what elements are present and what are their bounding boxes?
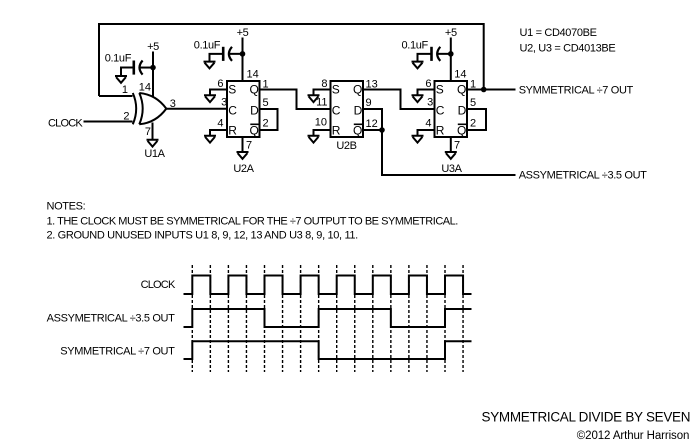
svg-text:Q: Q [457,124,466,138]
wire U2A R stub + ground [210,130,227,136]
svg-text:9: 9 [366,97,372,109]
capacitor C2 0.1uF [229,53,243,55]
wire U3A pin 7 + ground [450,138,452,152]
wire CLOCK input to U1A pin 2 [84,121,133,123]
svg-text:SYMMETRICAL ÷7 OUT: SYMMETRICAL ÷7 OUT [60,345,175,357]
svg-text:5: 5 [263,97,269,109]
svg-text:7: 7 [145,126,151,138]
svg-text:+5: +5 [147,41,159,53]
svg-text:C: C [228,103,237,117]
svg-text:S: S [332,83,340,97]
svg-text:8: 8 [321,78,327,90]
wire U2A pin 7 + ground [242,138,244,152]
svg-text:2: 2 [263,117,269,129]
svg-text:3: 3 [221,97,227,109]
svg-text:ASSYMETRICAL ÷3.5 OUT: ASSYMETRICAL ÷3.5 OUT [47,312,175,324]
ground C3 [412,62,424,69]
wire U3A pin 14 +5 rail [450,38,452,81]
svg-text:2. GROUND UNUSED INPUTS U1 8,: 2. GROUND UNUSED INPUTS U1 8, 9, 12, 13 … [47,230,359,242]
svg-text:NOTES:: NOTES: [47,201,86,213]
svg-text:2: 2 [123,111,129,123]
svg-text:+5: +5 [445,27,457,39]
svg-text:Q: Q [249,83,258,97]
svg-text:ASSYMETRICAL ÷3.5 OUT: ASSYMETRICAL ÷3.5 OUT [519,170,647,182]
op-amp U1A XOR gate body [133,93,136,124]
svg-text:Q: Q [353,124,362,138]
capacitor C3 0.1uF [437,53,451,55]
svg-text:7: 7 [246,139,252,151]
svg-text:C: C [436,103,445,117]
flip-flop U2A box [227,81,260,137]
svg-text:C: C [332,103,341,117]
wire U2B Q to U3A C [364,90,435,110]
wire U3A R stub + ground [418,130,435,136]
svg-text:R: R [228,124,237,138]
capacitor C1 0.1uF [140,67,154,69]
svg-text:D: D [250,103,259,117]
svg-text:D: D [354,103,363,117]
svg-text:4: 4 [425,118,431,130]
svg-text:0.1uF: 0.1uF [194,40,221,52]
svg-text:U3A: U3A [441,163,462,175]
svg-text:S: S [436,83,444,97]
wire U3A S stub + ground [418,90,435,96]
svg-text:SYMMETRICAL ÷7 OUT: SYMMETRICAL ÷7 OUT [519,85,634,97]
svg-text:U2B: U2B [336,140,356,152]
svg-text:U1 = CD4070BE: U1 = CD4070BE [520,27,597,39]
wire U2A Q to U2B C [260,90,331,110]
wire U1A out to U2A C [166,108,226,110]
svg-text:7: 7 [454,139,460,151]
node junction C2/+5 [240,51,246,57]
svg-text:5: 5 [470,97,476,109]
wire U2B S stub + ground [314,90,331,96]
svg-text:0.1uF: 0.1uF [402,40,429,52]
svg-text:11: 11 [316,97,327,109]
ground U1A pin 7 [147,140,159,147]
ground C2 [204,62,216,69]
svg-text:6: 6 [217,78,223,90]
waveform CLOCK trace [184,276,472,295]
svg-text:Q: Q [353,83,362,97]
svg-text:U2A: U2A [233,163,254,175]
svg-text:4: 4 [217,118,223,130]
svg-text:R: R [436,124,445,138]
svg-text:14: 14 [247,69,259,81]
timing grid dashed lines [192,265,463,372]
svg-text:R: R [332,124,341,138]
svg-text:Q: Q [457,83,466,97]
wire U2B Qbar to ASSYMETRICAL out [382,130,516,175]
svg-text:D: D [458,103,467,117]
svg-text:CLOCK: CLOCK [141,279,176,291]
svg-text:S: S [228,83,236,97]
wire U2B D to Qbar [364,109,383,130]
svg-text:2: 2 [470,117,476,129]
flip-flop U3A box [435,81,468,137]
svg-text:SYMMETRICAL DIVIDE BY SEVEN: SYMMETRICAL DIVIDE BY SEVEN [482,409,691,424]
svg-text:U1A: U1A [144,148,165,160]
ground C1 [115,76,127,83]
svg-text:14: 14 [139,82,151,94]
svg-text:0.1uF: 0.1uF [105,53,132,65]
wire U2A S stub + ground [210,90,227,96]
wire U3A D-Qbar loop [468,109,486,130]
node junction feedback/Q U3A [481,87,487,93]
wire U1A pin 14 +5 rail [152,52,154,98]
node junction U2B Qbar/D [379,127,385,133]
svg-text:1: 1 [122,84,128,96]
node junction C3/+5 [448,51,454,57]
wire U1A pin 1 input [99,95,133,97]
wire U3A Q to SYMMETRICAL out [468,89,516,91]
svg-text:CLOCK: CLOCK [48,118,83,130]
wire U1A pin 7 [152,123,154,140]
flip-flop U2B box [331,81,364,137]
svg-text:10: 10 [315,117,327,129]
wire U2A pin 14 +5 rail [242,38,244,81]
svg-text:Q: Q [249,124,258,138]
svg-text:U2, U3 = CD4013BE: U2, U3 = CD4013BE [520,42,616,54]
waveform ASSYMETRICAL trace [184,309,472,327]
svg-text:+5: +5 [237,27,249,39]
wire U2B R stub + ground [314,130,331,136]
svg-text:12: 12 [366,118,378,130]
waveform SYMMETRICAL trace [184,341,472,359]
node junction C1/+5 [150,65,156,71]
svg-text:1. THE CLOCK MUST BE SYMMETRIC: 1. THE CLOCK MUST BE SYMMETRICAL FOR THE… [47,215,459,227]
svg-text:©2012 Arthur Harrison: ©2012 Arthur Harrison [577,430,690,442]
svg-text:6: 6 [425,78,431,90]
wire U2A D-Qbar loop [260,109,278,130]
svg-text:14: 14 [454,69,466,81]
wire feedback loop from U3A Q to U1A pin 1 [99,24,484,96]
svg-text:3: 3 [427,97,433,109]
